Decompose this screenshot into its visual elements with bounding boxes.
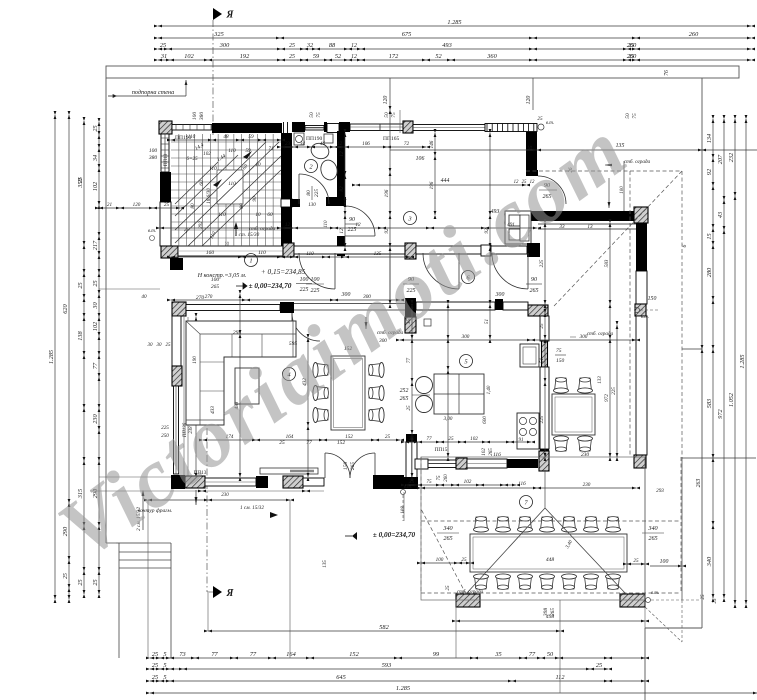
svg-text:380: 380 (199, 112, 205, 122)
svg-text:108: 108 (401, 506, 406, 514)
svg-text:35: 35 (494, 651, 501, 658)
svg-text:99: 99 (433, 651, 440, 658)
pier small (481, 245, 491, 256)
room number 6 (462, 271, 475, 284)
section marker Я (bottom) (213, 586, 222, 598)
column stair SW corner (161, 246, 178, 258)
svg-text:110: 110 (228, 148, 236, 154)
svg-text:102: 102 (184, 53, 194, 60)
svg-text:120: 120 (383, 96, 389, 105)
svg-text:25: 25 (628, 54, 634, 60)
svg-text:152: 152 (345, 434, 353, 440)
svg-text:225: 225 (314, 189, 320, 198)
svg-text:133: 133 (598, 376, 603, 384)
svg-text:1.285: 1.285 (447, 19, 461, 26)
svg-text:34: 34 (300, 140, 306, 147)
svg-text:30: 30 (148, 343, 154, 348)
svg-text:190: 190 (192, 356, 198, 364)
wall: SW wing cap (406, 434, 417, 442)
top dimension row 1 (1.285) (158, 25, 751, 27)
kitchen appliance ПП15 (520, 344, 539, 367)
chair (369, 363, 385, 378)
svg-text:12: 12 (339, 151, 345, 157)
wall: east wing mid1 (636, 271, 647, 304)
svg-text:59: 59 (248, 134, 254, 140)
media cabinet (260, 468, 318, 474)
svg-text:360: 360 (486, 53, 497, 60)
pier hall NW (283, 243, 294, 257)
svg-text:25: 25 (539, 323, 545, 329)
svg-text:92: 92 (706, 168, 713, 175)
striped wall band top right (485, 124, 537, 132)
svg-text:6: 6 (682, 244, 688, 247)
svg-text:225: 225 (611, 387, 617, 395)
svg-text:225: 225 (539, 415, 545, 423)
svg-text:46: 46 (320, 140, 326, 147)
column east pier (635, 304, 646, 316)
svg-text:152: 152 (337, 440, 346, 446)
svg-text:59: 59 (245, 148, 251, 154)
lot boundary right vertical (701, 78, 703, 628)
svg-text:100: 100 (300, 277, 309, 283)
wall: stair south (double line) (178, 246, 290, 256)
terrace chair top (606, 517, 621, 533)
terrace chair top (540, 517, 555, 533)
svg-text:50: 50 (625, 113, 631, 119)
svg-text:48: 48 (223, 133, 229, 140)
wall: corridor south w (294, 246, 405, 254)
round chair A (416, 377, 433, 394)
svg-text:645: 645 (336, 674, 345, 681)
column living west mid (172, 366, 182, 386)
svg-text:30: 30 (92, 302, 99, 310)
svg-text:25: 25 (537, 116, 543, 122)
svg-text:31: 31 (160, 53, 167, 60)
svg-text:265: 265 (211, 284, 220, 290)
wall: SW wing (406, 442, 417, 478)
svg-text:225: 225 (311, 288, 320, 294)
window ПП190 band left (172, 125, 212, 131)
door swing C (492, 253, 528, 289)
svg-text:1: 1 (249, 257, 252, 264)
svg-text:192: 192 (240, 53, 250, 60)
svg-text:270: 270 (205, 294, 213, 300)
svg-text:300: 300 (580, 334, 588, 340)
wall: east wing lower (636, 316, 647, 455)
stair direction arrow (235, 224, 237, 236)
svg-text:5: 5 (163, 662, 166, 669)
svg-text:152: 152 (349, 651, 359, 658)
wall: SW wing foot (404, 477, 418, 489)
chair (313, 408, 329, 423)
svg-text:293: 293 (656, 488, 664, 494)
svg-text:110: 110 (209, 166, 217, 172)
column NE wing (634, 207, 648, 223)
svg-text:1.285: 1.285 (48, 350, 55, 364)
svg-text:10: 10 (255, 212, 261, 218)
svg-text:1.052: 1.052 (728, 392, 735, 407)
svg-text:972: 972 (604, 394, 610, 402)
svg-text:43: 43 (717, 212, 724, 218)
room number 3 (404, 212, 417, 225)
exterior steps bottom-left (106, 542, 171, 544)
wall: corridor south e (491, 246, 527, 254)
kitchen stove unit (517, 413, 539, 449)
stairs: tread grid (178, 134, 180, 246)
svg-text:102: 102 (481, 448, 487, 456)
terrace chair top (518, 517, 533, 533)
svg-text:110: 110 (228, 181, 236, 187)
svg-text:265: 265 (350, 462, 356, 471)
stair guide diagonals (175, 142, 279, 243)
svg-text:Я: Я (226, 10, 235, 21)
svg-text:260: 260 (444, 474, 449, 482)
svg-text:230: 230 (221, 493, 229, 498)
svg-text:172: 172 (389, 53, 399, 60)
column terrace SE (620, 594, 645, 607)
room number 2 (305, 160, 318, 173)
svg-text:± 0,00=234,70: ± 0,00=234,70 (249, 281, 292, 290)
svg-text:300: 300 (462, 334, 470, 340)
svg-text:100: 100 (311, 277, 320, 283)
svg-text:300: 300 (495, 292, 505, 298)
svg-text:6=25: 6=25 (186, 156, 198, 162)
wall: kitchen west end (540, 449, 549, 462)
svg-text:82: 82 (339, 186, 345, 192)
svg-text:340: 340 (442, 525, 453, 532)
window 100/380 on stair west wall (161, 134, 169, 172)
chair (554, 436, 569, 452)
svg-text:263: 263 (696, 479, 702, 488)
svg-text:150: 150 (556, 358, 565, 364)
svg-text:77: 77 (426, 436, 432, 442)
column living S hatch2 (283, 476, 303, 488)
wall: corridor south mid (416, 246, 481, 254)
terrace chair bottom (518, 574, 533, 590)
svg-text:1,40: 1,40 (487, 385, 492, 394)
svg-text:в.т.: в.т. (641, 315, 649, 320)
svg-text:75: 75 (316, 112, 322, 118)
svg-text:60: 60 (199, 180, 205, 186)
window band ПП15 (428, 460, 457, 468)
wall: bath east partition (337, 131, 345, 206)
terrace chair top (496, 517, 511, 533)
svg-text:225: 225 (539, 259, 545, 267)
svg-text:25: 25 (166, 343, 172, 348)
svg-text:398: 398 (543, 608, 549, 618)
svg-text:52: 52 (335, 53, 342, 60)
wall: stair west lower (160, 202, 171, 246)
wall pier living N (280, 302, 294, 313)
svg-text:100: 100 (192, 112, 198, 121)
terrace chair top (584, 517, 599, 533)
svg-text:12: 12 (355, 222, 361, 228)
svg-text:Я: Я (226, 588, 235, 599)
column terrace NE (539, 451, 549, 471)
bottom-right drain details (646, 598, 651, 603)
svg-text:116: 116 (518, 481, 526, 487)
fence label mid (365, 322, 368, 329)
round chair B (416, 396, 433, 413)
svg-text:25: 25 (289, 43, 295, 49)
svg-text:106: 106 (362, 141, 370, 147)
svg-text:620: 620 (62, 303, 69, 313)
pier corridor (405, 243, 416, 259)
svg-text:90: 90 (531, 277, 537, 283)
svg-text:12: 12 (351, 54, 357, 60)
terrace overhang dashed (420, 457, 422, 593)
svg-text:1 ст. 15/30: 1 ст. 15/30 (235, 232, 260, 238)
svg-text:40: 40 (141, 293, 147, 300)
svg-text:75: 75 (556, 348, 562, 354)
svg-text:51: 51 (539, 358, 545, 364)
column living S hatch (185, 476, 205, 488)
window band room3 (413, 125, 485, 131)
terrace chair bottom (606, 574, 621, 590)
svg-text:90: 90 (349, 217, 355, 223)
chair (369, 386, 385, 401)
svg-text:подпорна стена: подпорна стена (132, 89, 174, 96)
svg-text:12: 12 (339, 228, 345, 234)
wall stub below SW col (170, 258, 183, 270)
stair landing (center) (217, 170, 243, 204)
svg-text:25: 25 (385, 434, 391, 440)
roof valley right (545, 508, 626, 594)
lot boundary left vertical (105, 78, 107, 543)
svg-text:265: 265 (400, 396, 409, 402)
svg-text:25: 25 (713, 598, 718, 604)
dim row 498 under terrace (456, 620, 645, 622)
interior dimension lines lattice (281, 146, 426, 148)
svg-text:ПП165: ПП165 (383, 136, 399, 142)
svg-text:583: 583 (706, 399, 713, 408)
svg-text:120: 120 (526, 96, 532, 105)
pier kitchen NW (528, 305, 548, 316)
svg-text:110: 110 (324, 220, 329, 228)
chair (313, 363, 329, 378)
svg-text:493: 493 (442, 42, 451, 49)
svg-text:25: 25 (446, 585, 451, 591)
lot boundary bottom-right horizontal (645, 627, 702, 629)
svg-text:21: 21 (107, 202, 113, 208)
svg-text:52: 52 (435, 53, 442, 60)
door jamb stair (281, 199, 292, 207)
svg-text:675: 675 (402, 31, 411, 38)
svg-text:92: 92 (384, 228, 390, 234)
wall: kitchen west upper (540, 316, 549, 341)
roof valley left (466, 508, 545, 594)
svg-text:130: 130 (308, 203, 316, 208)
svg-text:325: 325 (213, 31, 223, 38)
washbasin (319, 158, 340, 181)
svg-text:12: 12 (351, 43, 357, 49)
bottom dimension row B (150, 668, 608, 670)
svg-text:± 0,00=234,70: ± 0,00=234,70 (373, 531, 416, 539)
svg-text:160: 160 (206, 250, 215, 256)
svg-text:150: 150 (648, 296, 657, 302)
wall stub corridor S (405, 298, 416, 317)
svg-text:25: 25 (633, 558, 639, 564)
svg-text:25: 25 (164, 202, 170, 208)
svg-text:448: 448 (546, 556, 555, 563)
svg-text:ПП13: ПП13 (164, 153, 169, 166)
svg-text:32: 32 (306, 42, 314, 49)
door swing hall-living (292, 313, 320, 341)
pier (495, 299, 503, 310)
terrace chair bottom (474, 574, 489, 590)
left dimension column detail (83, 121, 85, 594)
svg-text:25: 25 (448, 436, 454, 442)
svg-text:25: 25 (63, 573, 69, 579)
svg-text:55: 55 (225, 241, 231, 247)
lot boundary bottom vertical (644, 628, 646, 700)
column east mid (634, 455, 646, 468)
door swing entry R (350, 453, 375, 478)
window ПП13 band (205, 478, 256, 486)
svg-text:76: 76 (664, 70, 670, 76)
svg-text:в.т.: в.т. (546, 121, 554, 126)
svg-text:150: 150 (343, 462, 349, 471)
svg-text:217: 217 (92, 240, 99, 250)
svg-text:стб. ограда: стб. ограда (457, 588, 484, 595)
chair (554, 378, 569, 394)
column terrace SW (456, 594, 480, 607)
svg-text:100: 100 (660, 559, 669, 565)
svg-text:102: 102 (92, 321, 99, 331)
svg-text:260: 260 (689, 31, 699, 38)
svg-text:207: 207 (717, 154, 724, 164)
door swing hall A (299, 253, 335, 289)
pier hatch top (403, 121, 413, 133)
wall: stair east lower (281, 207, 292, 256)
bath door arc (298, 174, 300, 204)
svg-text:25: 25 (77, 579, 84, 585)
svg-text:100: 100 (211, 277, 220, 283)
svg-text:77: 77 (529, 651, 536, 658)
svg-text:100: 100 (436, 557, 444, 563)
svg-text:13: 13 (587, 224, 593, 230)
svg-text:75: 75 (437, 475, 442, 481)
svg-text:225: 225 (300, 287, 309, 293)
column top-left (hatched) (159, 121, 172, 134)
svg-text:280: 280 (706, 267, 713, 277)
svg-text:582: 582 (379, 624, 389, 631)
svg-text:25: 25 (289, 54, 295, 60)
svg-text:380: 380 (148, 155, 158, 161)
door hall to room3 (345, 235, 375, 237)
svg-text:1.285: 1.285 (396, 685, 410, 692)
section marker Я (top) (213, 8, 222, 20)
svg-text:+ 0,15=234,85: + 0,15=234,85 (261, 267, 306, 276)
window band living N (186, 305, 280, 311)
room number 7 (520, 496, 533, 509)
svg-text:444: 444 (441, 177, 450, 184)
svg-text:135: 135 (323, 560, 328, 568)
svg-text:25: 25 (152, 662, 158, 669)
top dimension row 3 (158, 48, 751, 50)
svg-text:252: 252 (400, 388, 409, 394)
wall: terrace north black (507, 459, 538, 468)
terrace chair bottom (496, 574, 511, 590)
svg-text:1 см. 15/32: 1 см. 15/32 (240, 505, 264, 511)
svg-text:75: 75 (391, 112, 397, 118)
chair (578, 436, 593, 452)
wall: bath top left (292, 122, 305, 132)
svg-text:600: 600 (482, 416, 488, 424)
svg-text:102: 102 (464, 479, 472, 485)
svg-text:102: 102 (92, 181, 99, 191)
wall: living west upper (172, 316, 181, 366)
pier box (327, 124, 339, 133)
column living NW (172, 302, 186, 316)
wall: stair top exterior (212, 123, 282, 133)
pier wing (415, 459, 428, 469)
door swing entry L (325, 453, 350, 478)
window ПП190 bath (305, 126, 324, 131)
window living west (174, 386, 179, 474)
svg-text:77: 77 (306, 440, 312, 446)
bath south wall (290, 199, 300, 207)
chair (578, 378, 593, 394)
terrace chair top (562, 517, 577, 533)
svg-text:300: 300 (219, 42, 230, 49)
svg-text:110: 110 (306, 251, 314, 257)
wall: bath east lower (337, 236, 345, 256)
svg-text:10: 10 (255, 162, 261, 168)
double entrance door (324, 453, 326, 478)
left dimension column 1.285 (54, 115, 56, 599)
svg-text:196: 196 (429, 181, 435, 189)
svg-text:112: 112 (556, 674, 566, 681)
svg-text:стб. ограда: стб. ограда (249, 225, 276, 232)
wall: kitchen west lower (540, 367, 549, 449)
coffee table (235, 368, 259, 404)
svg-text:25: 25 (92, 579, 99, 585)
retaining wall strip (plan top) (106, 66, 739, 78)
corner shower (294, 133, 304, 145)
svg-text:25: 25 (701, 594, 706, 600)
door swing room3 (538, 176, 566, 204)
chair (313, 386, 329, 401)
svg-text:265: 265 (550, 608, 556, 617)
terrace boundary thin (421, 457, 645, 600)
svg-text:972: 972 (717, 408, 724, 418)
svg-text:25: 25 (461, 557, 467, 563)
dashed roof overhang right (630, 170, 682, 172)
svg-text:73: 73 (179, 651, 185, 658)
svg-text:1.285: 1.285 (739, 354, 746, 368)
svg-text:30: 30 (157, 343, 163, 348)
svg-text:16,6/30: 16,6/30 (206, 188, 212, 204)
svg-text:50: 50 (547, 651, 554, 658)
wall: bath east head (339, 122, 350, 132)
terrace chair bottom (562, 574, 577, 590)
svg-text:102: 102 (203, 151, 211, 157)
terrace roof V diagonals (544, 470, 546, 508)
svg-text:25: 25 (92, 125, 99, 131)
wall: stair west (black) (160, 172, 171, 202)
terrace chair top (474, 517, 489, 533)
kitchen window strip (542, 341, 548, 367)
svg-text:25: 25 (92, 280, 99, 286)
terrace chair bottom (540, 574, 555, 590)
room number 4 (283, 368, 296, 381)
svg-text:340: 340 (706, 556, 713, 567)
wall: corridor north (right wing) (529, 211, 636, 221)
svg-text:583: 583 (604, 259, 610, 267)
left dimension column 620/290/25 (68, 115, 70, 599)
svg-text:77: 77 (250, 651, 257, 658)
